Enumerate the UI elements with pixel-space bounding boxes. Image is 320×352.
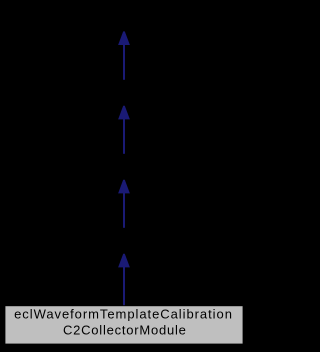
inheritance arrow 4 (above class box) bbox=[118, 254, 130, 306]
svg-text:C2CollectorModule: C2CollectorModule bbox=[63, 323, 187, 338]
inheritance arrow 3 bbox=[118, 180, 130, 228]
inheritance arrow 2 bbox=[118, 106, 130, 154]
class node box eclWaveformTemplateCalibrationC2CollectorModule bbox=[5, 306, 243, 344]
svg-text:eclWaveformTemplateCalibration: eclWaveformTemplateCalibration bbox=[14, 306, 233, 321]
inheritance arrow 1 (topmost) bbox=[118, 31, 130, 79]
